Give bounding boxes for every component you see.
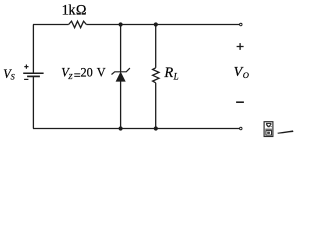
wire left: battery down to bottom corner xyxy=(32,76,34,128)
resistor RL (vertical zigzag) xyxy=(153,68,159,83)
resistor R 1kΩ (zigzag) xyxy=(69,21,87,28)
output minus sign xyxy=(236,101,244,103)
svg-text:RL: RL xyxy=(163,65,178,81)
wire top: resistor to output terminal xyxy=(86,24,239,26)
output terminal top (open circle) xyxy=(240,23,243,26)
wire RL branch upper xyxy=(155,25,157,68)
wire zener branch upper xyxy=(120,25,122,72)
node junction dot top-zener xyxy=(119,22,123,26)
zener diode DZ triangle (anode, apex up) xyxy=(116,72,125,81)
figure caption stroke 一 xyxy=(278,130,294,133)
wire left: top corner down to battery xyxy=(32,25,34,74)
figure caption glyph 圖 (drawn) xyxy=(264,122,273,137)
wire bottom xyxy=(33,128,239,130)
svg-text:VS: VS xyxy=(3,67,14,82)
node junction dot bottom-zener xyxy=(119,126,123,130)
wire RL branch lower xyxy=(155,83,157,129)
svg-text:VO: VO xyxy=(234,65,249,80)
zener diode DZ cathode bar with bent ends xyxy=(112,68,130,74)
battery VS long plate xyxy=(23,72,43,74)
wire zener branch lower xyxy=(120,81,122,128)
output plus sign xyxy=(237,43,244,50)
output terminal bottom (open circle) xyxy=(240,127,243,130)
node junction dot bottom-RL xyxy=(154,126,158,130)
battery plus sign xyxy=(24,65,28,69)
battery minus sign xyxy=(24,78,28,80)
svg-text:VZ=20V: VZ=20V xyxy=(61,66,106,83)
battery VS short plate xyxy=(27,75,40,77)
svg-text:1kΩ: 1kΩ xyxy=(62,3,87,19)
node junction dot top-RL xyxy=(154,22,158,26)
wire top: left corner to resistor xyxy=(33,24,69,26)
